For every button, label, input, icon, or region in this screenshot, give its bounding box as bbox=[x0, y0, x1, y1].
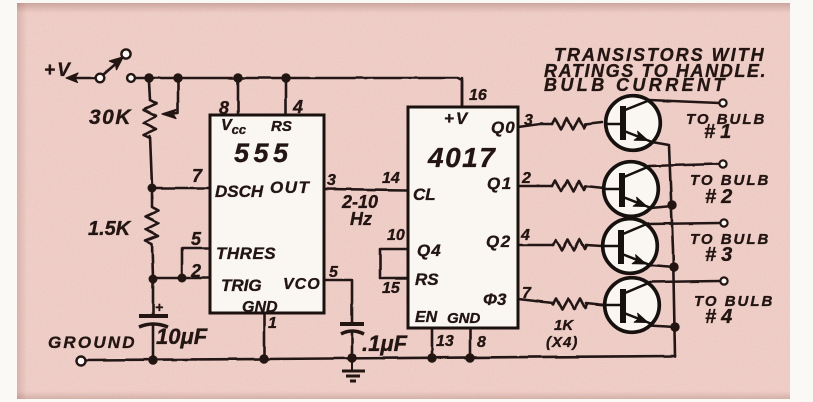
node bulb3 terminal bbox=[720, 219, 727, 226]
svg-text:2: 2 bbox=[521, 170, 531, 187]
svg-text:4: 4 bbox=[520, 227, 530, 244]
wire 555 pin1 bbox=[263, 313, 266, 359]
wire R3 to Q#3 base bbox=[586, 245, 602, 246]
resistor 30K bbox=[144, 100, 157, 138]
svg-text:RS: RS bbox=[271, 118, 292, 135]
svg-text:RS: RS bbox=[415, 270, 439, 289]
wire 10uF bottom lead bbox=[152, 326, 155, 359]
resistor R3 bbox=[553, 240, 587, 251]
transistor Q3 bbox=[602, 219, 657, 274]
wire Q#2 collector to bulb2 bbox=[649, 164, 719, 166]
svg-text:(X4): (X4) bbox=[546, 334, 578, 351]
svg-text:5: 5 bbox=[329, 264, 339, 281]
svg-text:30K: 30K bbox=[89, 106, 132, 129]
30K wiper arrowhead bbox=[162, 110, 176, 119]
node pin13 ground junction bbox=[427, 353, 436, 362]
svg-text:#2: #2 bbox=[705, 186, 737, 208]
svg-text:1.5K: 1.5K bbox=[88, 218, 132, 240]
svg-text:TRIG: TRIG bbox=[221, 276, 262, 295]
node .1uF ground junction bbox=[347, 353, 356, 362]
wire +V arrow lead bbox=[70, 77, 96, 80]
node rail dot 1 bbox=[144, 73, 153, 82]
svg-text:EN: EN bbox=[415, 309, 438, 326]
wire Q1 to R2 bbox=[518, 185, 552, 188]
svg-text:VCO: VCO bbox=[283, 276, 321, 293]
node bulb4 terminal bbox=[720, 277, 727, 284]
wire 4017 pin8 bbox=[469, 328, 472, 358]
svg-text:Q4: Q4 bbox=[417, 241, 442, 260]
switch pole circle bbox=[96, 74, 105, 83]
node rail dot pin8 bbox=[233, 73, 242, 82]
wire DSCH pin7 bbox=[152, 187, 210, 190]
resistor R4 bbox=[553, 299, 587, 310]
svg-text:8: 8 bbox=[477, 334, 486, 351]
wire 4017 pin10-15 jumper bbox=[380, 249, 408, 278]
node pin8 ground junction bbox=[465, 353, 474, 362]
svg-text:16: 16 bbox=[469, 87, 487, 104]
svg-text:DSCH: DSCH bbox=[215, 182, 264, 201]
transistor Q4 bbox=[605, 278, 660, 333]
wire switch lever bbox=[104, 61, 119, 74]
svg-text:14: 14 bbox=[382, 170, 400, 187]
wire R2 to Q#2 base bbox=[585, 186, 604, 188]
svg-text:+V: +V bbox=[444, 109, 469, 128]
wire R4 to Q#4 base bbox=[586, 303, 605, 305]
wire 4017 pin13 bbox=[431, 328, 434, 358]
svg-text:2: 2 bbox=[190, 261, 201, 281]
switch throw circle on rail bbox=[127, 74, 135, 82]
node rail dot pin4 bbox=[281, 73, 290, 82]
node THRES-TRIG junction bbox=[178, 274, 187, 283]
svg-text:GND: GND bbox=[242, 299, 278, 316]
wire Q#3 collector to bulb3 bbox=[647, 223, 720, 224]
wire ground rail bbox=[85, 356, 675, 360]
svg-text:7: 7 bbox=[192, 166, 203, 186]
svg-text:555: 555 bbox=[234, 138, 293, 168]
svg-text:+V: +V bbox=[44, 60, 72, 81]
wire Q#4 emitter to bus bbox=[649, 326, 675, 328]
capacitor C2 .1uF bbox=[340, 324, 364, 334]
svg-text:15: 15 bbox=[382, 280, 401, 297]
svg-text:Q1: Q1 bbox=[487, 174, 513, 193]
svg-text:Hz: Hz bbox=[350, 209, 372, 229]
IC U2 4017 decade counter box bbox=[408, 107, 518, 328]
svg-text:CL: CL bbox=[413, 185, 436, 204]
wire Q3 to R4 bbox=[518, 299, 553, 303]
wire 30K bottom to DSCH node bbox=[150, 136, 152, 186]
svg-text:Q0: Q0 bbox=[491, 118, 516, 137]
svg-text:7: 7 bbox=[522, 285, 532, 302]
capacitor C1 10uF bbox=[139, 316, 168, 327]
wire Q#2 emitter to bus bbox=[651, 206, 672, 208]
svg-text:+: + bbox=[155, 299, 163, 315]
resistor R2 bbox=[552, 181, 586, 192]
wire THRES pin5 bbox=[182, 248, 210, 278]
svg-text:10: 10 bbox=[387, 227, 405, 244]
svg-text:Q2: Q2 bbox=[486, 232, 512, 251]
svg-text:1K: 1K bbox=[554, 317, 574, 334]
+V arrowhead bbox=[66, 73, 78, 83]
svg-text:#1: #1 bbox=[704, 121, 736, 143]
svg-text:13: 13 bbox=[436, 333, 454, 350]
svg-text:GROUND: GROUND bbox=[48, 333, 137, 352]
resistor 1.5K bbox=[146, 188, 159, 278]
svg-text:THRES: THRES bbox=[216, 244, 276, 263]
wire TRIG pin2 bbox=[153, 277, 210, 280]
wire 555 pin8 bbox=[237, 78, 240, 115]
svg-text:.1μF: .1μF bbox=[362, 331, 408, 356]
wire emitter bus bbox=[652, 142, 675, 356]
wire Q0 to R1 bbox=[518, 124, 552, 127]
wire OUT to CL bbox=[324, 189, 408, 190]
node TRIG junction bbox=[149, 275, 158, 284]
svg-text:4: 4 bbox=[292, 97, 303, 117]
svg-text:Φ3: Φ3 bbox=[483, 290, 507, 309]
node DSCH junction bbox=[148, 184, 157, 193]
svg-text:4017: 4017 bbox=[427, 142, 496, 173]
wire +V rail bbox=[135, 78, 462, 106]
svg-text:#3: #3 bbox=[705, 244, 737, 266]
svg-text:BULB CURRENT: BULB CURRENT bbox=[544, 75, 728, 95]
svg-text:8: 8 bbox=[219, 98, 229, 118]
IC U1 555 timer box bbox=[210, 115, 324, 313]
wire R1 to Q#1 base bbox=[585, 122, 602, 124]
svg-text:#4: #4 bbox=[705, 306, 737, 328]
svg-text:1: 1 bbox=[268, 315, 277, 332]
wire 30K wiper bbox=[168, 82, 178, 114]
ground symbol earth bbox=[342, 358, 365, 381]
switch throw circle top bbox=[121, 49, 130, 58]
wire Q#4 collector to bulb4 bbox=[650, 281, 720, 282]
svg-text:3: 3 bbox=[524, 112, 533, 129]
wire 10uF top lead bbox=[152, 278, 155, 315]
wire Q2 to R3 bbox=[518, 244, 553, 247]
switch lever arrowhead bbox=[110, 57, 124, 70]
svg-text:5: 5 bbox=[191, 229, 202, 249]
wire 555 pin4 bbox=[285, 78, 288, 115]
wire 4017 pin16 bbox=[461, 78, 464, 107]
svg-text:OUT: OUT bbox=[270, 178, 311, 197]
wire VCO to cap bbox=[324, 280, 352, 322]
wire 30K top lead bbox=[149, 82, 150, 100]
node Q#2 emitter junction bbox=[667, 200, 676, 209]
wire Q#3 emitter to bus bbox=[650, 265, 674, 267]
svg-text:GND: GND bbox=[447, 310, 481, 327]
wire Q#1 collector to bulb1 bbox=[649, 100, 719, 103]
ground terminal circle bbox=[77, 357, 86, 366]
wire .1uF bottom lead bbox=[351, 333, 354, 358]
node rail dot 2 bbox=[173, 73, 182, 82]
svg-text:10μF: 10μF bbox=[156, 324, 208, 349]
node Q#4 emitter junction bbox=[670, 322, 679, 331]
node 10uF ground junction bbox=[148, 355, 157, 364]
svg-text:3: 3 bbox=[327, 172, 336, 189]
node bulb1 terminal bbox=[719, 99, 726, 106]
resistor R1 bbox=[552, 119, 586, 130]
node bulb2 terminal bbox=[719, 160, 726, 167]
node 555 pin1 ground junction bbox=[259, 354, 268, 363]
transistor Q1 bbox=[604, 96, 660, 151]
node Q#3 emitter junction bbox=[669, 262, 678, 271]
transistor Q2 bbox=[604, 162, 659, 217]
